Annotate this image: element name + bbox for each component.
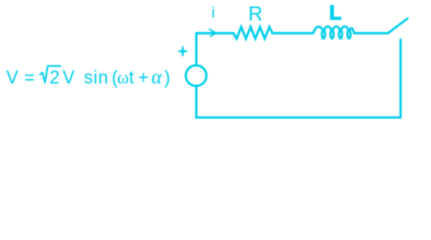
svg-text:ω: ω xyxy=(117,68,129,88)
inductor L coil humps xyxy=(313,26,354,33)
svg-text:L: L xyxy=(329,2,341,24)
inductor L coil bottom loops xyxy=(322,30,325,38)
switch blade (open) xyxy=(388,19,408,34)
svg-text:2: 2 xyxy=(50,68,60,88)
svg-text:=: = xyxy=(24,68,35,88)
radical sign of sqrt(2) xyxy=(40,66,61,83)
wire resistor to inductor xyxy=(273,32,314,34)
voltage source circle xyxy=(186,65,207,86)
equation: V = sqrt(2) V sin (wt + a) xyxy=(6,67,170,89)
switch fixed terminal / right side wire xyxy=(399,40,401,118)
bottom wire xyxy=(196,116,400,118)
svg-text:i: i xyxy=(212,5,216,22)
svg-text:): ) xyxy=(164,68,170,88)
svg-text:+: + xyxy=(138,68,149,88)
wire source bottom segment xyxy=(195,86,197,118)
svg-text:sin: sin xyxy=(84,68,109,88)
svg-text:V: V xyxy=(63,68,75,88)
wire top-left segment xyxy=(196,33,233,65)
wire inductor to switch xyxy=(354,32,388,34)
svg-text:α: α xyxy=(151,67,162,89)
svg-text:V: V xyxy=(6,68,18,88)
plus polarity mark xyxy=(179,47,186,55)
resistor R xyxy=(234,27,273,39)
svg-text:t: t xyxy=(129,68,134,88)
current arrow head xyxy=(210,29,217,36)
svg-text:R: R xyxy=(248,3,262,25)
